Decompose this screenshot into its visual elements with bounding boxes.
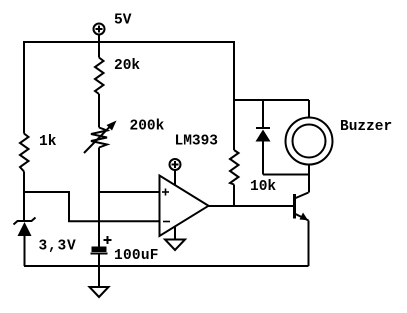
wire right vertical from top rail — [233, 41, 235, 150]
op-amp ground stub — [174, 226, 176, 239]
op-amp minus input mark — [163, 221, 170, 223]
power symbol 5V — [94, 24, 105, 43]
op-amp power circled plus — [170, 159, 181, 186]
capacitor 100uF — [91, 236, 112, 254]
op-amp U1 LM393 — [160, 176, 209, 237]
op-amp plus input mark — [162, 189, 169, 196]
svg-text:3,3V: 3,3V — [39, 239, 77, 255]
resistor 20k — [95, 58, 104, 95]
ground op-amp — [165, 240, 185, 251]
wire 10k to output — [233, 185, 235, 207]
wire bottom rail — [24, 265, 309, 267]
svg-text:10k: 10k — [250, 179, 276, 195]
wire 200k to cap, node B — [98, 148, 100, 248]
buzzer — [286, 100, 333, 193]
wire node A step to inverting input — [24, 192, 160, 221]
wire op-amp output — [209, 205, 295, 207]
transistor Q1 — [295, 193, 309, 267]
svg-text:100uF: 100uF — [114, 248, 159, 264]
svg-text:1k: 1k — [39, 134, 57, 150]
wire noninverting input — [99, 191, 160, 193]
wire left vertical lower — [23, 172, 25, 222]
wire cap to ground — [98, 254, 100, 288]
wire top rail — [24, 41, 234, 43]
wire diode bottom to buzzer — [263, 174, 309, 176]
variable resistor 200k — [84, 121, 117, 154]
wire left vertical upper — [23, 41, 25, 134]
svg-text:20k: 20k — [114, 58, 140, 74]
diode D1 — [256, 100, 271, 175]
resistor 10k — [230, 150, 239, 185]
zener diode 3.3V — [14, 218, 36, 267]
svg-text:5V: 5V — [114, 13, 132, 29]
svg-text:200k: 200k — [130, 119, 165, 135]
wire upper right rail — [233, 99, 309, 101]
svg-text:LM393: LM393 — [175, 134, 219, 150]
wire 20k to 200k — [98, 94, 100, 128]
resistor 1k — [20, 134, 29, 172]
svg-text:Buzzer: Buzzer — [340, 119, 392, 135]
wire center vertical from 5V to 20k — [98, 42, 100, 58]
ground main — [90, 287, 109, 297]
